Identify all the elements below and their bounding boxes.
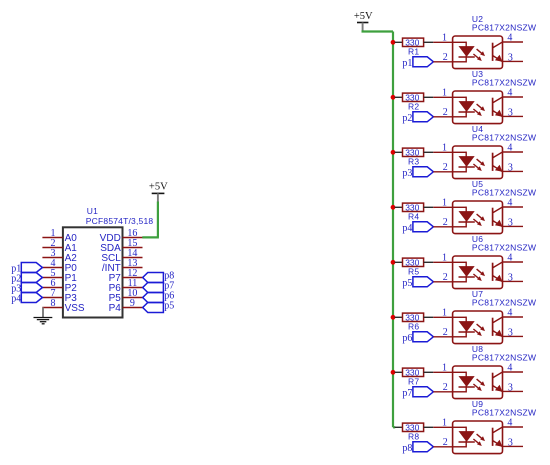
svg-text:p6: p6 <box>402 333 412 344</box>
svg-text:R4: R4 <box>408 211 419 221</box>
svg-text:PC817X2NSZW: PC817X2NSZW <box>472 243 536 253</box>
svg-text:p5: p5 <box>164 301 174 312</box>
svg-text:U1: U1 <box>87 206 98 216</box>
svg-text:p2: p2 <box>402 113 412 124</box>
svg-text:+5V: +5V <box>354 11 373 22</box>
svg-text:p4: p4 <box>11 294 21 305</box>
svg-text:1: 1 <box>442 363 447 374</box>
svg-text:p1: p1 <box>402 58 412 69</box>
svg-text:2: 2 <box>443 327 448 338</box>
svg-text:PC817X2NSZW: PC817X2NSZW <box>472 298 536 308</box>
svg-text:2: 2 <box>443 382 448 393</box>
svg-text:8: 8 <box>51 298 56 309</box>
svg-text:1: 1 <box>442 308 447 319</box>
svg-text:2: 2 <box>443 107 448 118</box>
svg-text:PCF8574T/3,518: PCF8574T/3,518 <box>86 216 154 226</box>
svg-text:p5: p5 <box>402 278 412 289</box>
svg-text:VSS: VSS <box>65 303 85 314</box>
svg-text:p4: p4 <box>402 223 412 234</box>
svg-text:p3: p3 <box>402 168 412 179</box>
svg-text:PC817X2NSZW: PC817X2NSZW <box>472 353 536 363</box>
svg-text:PC817X2NSZW: PC817X2NSZW <box>472 188 536 198</box>
svg-text:p7: p7 <box>402 388 412 399</box>
svg-text:R2: R2 <box>408 101 419 111</box>
svg-text:PC817X2NSZW: PC817X2NSZW <box>472 408 536 418</box>
svg-text:2: 2 <box>443 52 448 63</box>
svg-text:R3: R3 <box>408 156 419 166</box>
svg-text:PC817X2NSZW: PC817X2NSZW <box>472 78 536 88</box>
svg-text:1: 1 <box>442 88 447 99</box>
svg-text:1: 1 <box>442 33 447 44</box>
svg-text:R6: R6 <box>408 321 419 331</box>
svg-text:2: 2 <box>443 162 448 173</box>
svg-text:1: 1 <box>442 253 447 264</box>
svg-text:1: 1 <box>442 143 447 154</box>
svg-text:R1: R1 <box>408 46 419 56</box>
svg-text:R7: R7 <box>408 376 419 386</box>
svg-text:+5V: +5V <box>149 181 168 192</box>
svg-text:9: 9 <box>130 298 135 309</box>
svg-text:2: 2 <box>443 272 448 283</box>
svg-text:2: 2 <box>443 217 448 228</box>
svg-text:R8: R8 <box>408 431 419 441</box>
svg-text:1: 1 <box>442 198 447 209</box>
svg-text:R5: R5 <box>408 266 419 276</box>
svg-text:PC817X2NSZW: PC817X2NSZW <box>472 23 536 33</box>
svg-text:PC817X2NSZW: PC817X2NSZW <box>472 133 536 143</box>
svg-text:P4: P4 <box>109 303 122 314</box>
svg-text:p8: p8 <box>402 443 412 454</box>
svg-text:1: 1 <box>442 418 447 429</box>
svg-text:2: 2 <box>443 437 448 448</box>
